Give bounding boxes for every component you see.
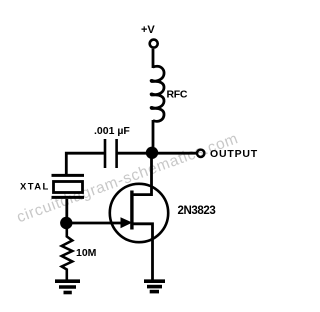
crystal XTAL bottom plate xyxy=(52,196,85,199)
node A (drain junction) xyxy=(146,147,158,159)
capacitor C1 right plate xyxy=(115,139,118,168)
transistor Q1 channel bar xyxy=(130,191,133,230)
svg-text:RFC: RFC xyxy=(167,89,188,101)
transistor Q1 source tap and wire down to ground xyxy=(132,224,153,281)
inductor RFC xyxy=(151,66,164,121)
transistor Q1 drain tap and wire up to node A xyxy=(132,153,152,195)
wire gate from node B to transistor xyxy=(66,222,122,225)
wire RFC bottom to node A xyxy=(152,120,155,153)
node B (gate junction) xyxy=(60,217,72,229)
wire +V terminal to RFC top xyxy=(152,49,155,68)
gate arrow of Q1 xyxy=(121,217,133,228)
terminal +V xyxy=(150,40,158,48)
wire node A to output terminal xyxy=(152,152,196,155)
wire capacitor left plate to corner and down to crystal xyxy=(66,153,105,174)
crystal XTAL top plate xyxy=(52,174,85,177)
ground under resistor R1 xyxy=(55,281,80,292)
capacitor C1 left plate xyxy=(104,139,107,168)
svg-text:.001 µF: .001 µF xyxy=(94,125,130,137)
wire crystal bottom to node B xyxy=(65,199,68,223)
svg-text:OUTPUT: OUTPUT xyxy=(210,148,258,160)
svg-text:+V: +V xyxy=(141,24,155,36)
svg-text:10M: 10M xyxy=(76,247,97,259)
wire capacitor right plate to node A xyxy=(117,152,148,155)
terminal OUTPUT xyxy=(197,150,204,157)
ground under source of Q1 xyxy=(144,281,165,291)
crystal XTAL body rectangle xyxy=(54,182,83,193)
resistor R1 zigzag xyxy=(62,229,73,280)
svg-text:XTAL: XTAL xyxy=(20,182,50,193)
transistor Q1 body circle xyxy=(110,184,168,242)
svg-text:2N3823: 2N3823 xyxy=(178,205,216,217)
